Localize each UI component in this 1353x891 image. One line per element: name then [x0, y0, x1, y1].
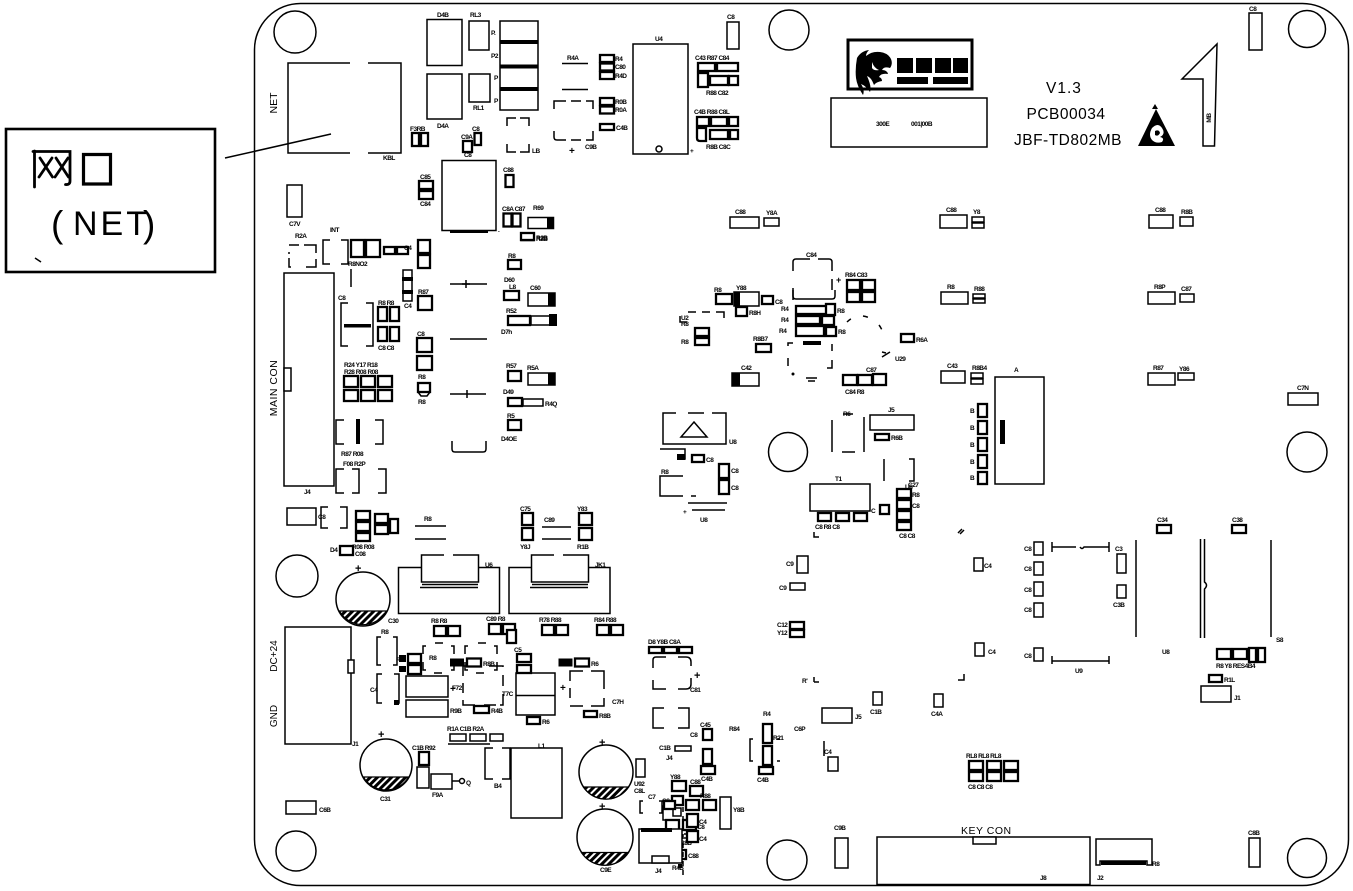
diode D49 row — [503, 389, 557, 408]
svg-text:P2: P2 — [491, 53, 499, 60]
capacitor C92 — [634, 759, 645, 788]
svg-text:C8: C8 — [706, 457, 714, 464]
svg-text:V1.3: V1.3 — [1046, 80, 1082, 97]
svg-text:R8NO2: R8NO2 — [348, 261, 368, 268]
svg-text:C8: C8 — [775, 299, 783, 306]
diode D4A — [427, 74, 462, 130]
svg-text:C9B: C9B — [834, 825, 846, 832]
capacitor C6B — [286, 801, 331, 814]
svg-text:RL1: RL1 — [473, 105, 485, 112]
svg-text:C60: C60 — [530, 285, 541, 292]
svg-text:+: + — [694, 670, 700, 682]
resistor R4 column — [750, 711, 784, 784]
svg-text:R24 Y17 R18: R24 Y17 R18 — [344, 362, 378, 369]
IC U9 outline — [1052, 542, 1109, 675]
opto IC2 dashed — [465, 643, 497, 673]
svg-text:R9B: R9B — [450, 708, 462, 715]
svg-text:C8 C8 C8: C8 C8 C8 — [968, 784, 993, 791]
MAIN CON connector J4 — [268, 273, 334, 496]
svg-text:R2B: R2B — [536, 236, 548, 243]
svg-text:C84: C84 — [420, 201, 431, 208]
svg-text:C88: C88 — [688, 853, 699, 860]
svg-text:P.: P. — [491, 30, 496, 37]
svg-text:R52: R52 — [506, 308, 517, 315]
capacitor C8x pair — [417, 331, 432, 381]
svg-text:C12: C12 — [777, 622, 788, 629]
svg-text:C8: C8 — [464, 152, 472, 159]
mounting hole top-center — [769, 10, 809, 50]
capacitor stack C75 — [520, 506, 533, 551]
svg-text:R8: R8 — [681, 339, 689, 346]
svg-text:R6: R6 — [591, 661, 599, 668]
mounting hole center — [769, 433, 808, 472]
resistor pair row1 col2 — [1149, 207, 1193, 228]
callout box 网口(NET) — [6, 129, 215, 272]
transistor T1 — [810, 476, 870, 531]
connector J6 — [639, 794, 707, 878]
dense cluster bottom-left-center — [662, 774, 745, 872]
svg-text:C8L: C8L — [634, 788, 645, 795]
capacitor C8R — [1248, 830, 1260, 867]
svg-text:C8: C8 — [318, 514, 326, 521]
diode D4B — [427, 12, 462, 66]
svg-text:R8: R8 — [381, 629, 389, 636]
svg-text:L1: L1 — [538, 743, 545, 750]
svg-text:Y8: Y8 — [973, 209, 981, 216]
wire pair — [884, 459, 914, 491]
crystal Y1 cluster — [348, 240, 408, 268]
jumper wire 3 — [450, 390, 486, 398]
crystal X1 — [832, 411, 864, 452]
capacitor C8B — [287, 508, 326, 525]
svg-text:R1L: R1L — [1224, 677, 1235, 684]
capacitor C86 top right — [1249, 6, 1262, 50]
svg-text:R6: R6 — [542, 719, 550, 726]
corner bracket marks — [814, 532, 819, 537]
svg-text:R8: R8 — [418, 374, 426, 381]
resistor R58 — [501, 413, 521, 443]
bracket with pad — [660, 449, 714, 464]
svg-text:DC+24: DC+24 — [269, 640, 280, 672]
wire stub — [350, 269, 352, 287]
svg-text:R8: R8 — [912, 492, 920, 499]
svg-text:Q: Q — [466, 780, 471, 787]
svg-text:C7V: C7V — [289, 221, 301, 228]
resistor pair row1 col1 — [940, 207, 984, 228]
svg-text:LB: LB — [532, 148, 540, 155]
electrolytic capacitor C31 — [360, 729, 412, 803]
capacitor pair C12 — [777, 622, 804, 637]
resistor R86 cluster — [714, 285, 783, 306]
svg-text:R8: R8 — [838, 329, 846, 336]
svg-text:C7: C7 — [648, 794, 656, 801]
svg-text:C9E: C9E — [600, 867, 612, 874]
svg-text:D4: D4 — [330, 547, 338, 554]
capacitor C8H — [727, 14, 739, 49]
capacitor pair C88/Y8 top-center — [730, 209, 779, 228]
resistor network 2-stack — [600, 98, 627, 114]
inductor L1 — [511, 743, 562, 818]
connector J1 — [1201, 686, 1241, 702]
svg-text:R8: R8 — [429, 655, 437, 662]
svg-text:R8: R8 — [661, 469, 669, 476]
IC Y2 dashed square — [793, 252, 835, 300]
resistor bars under Y2 — [779, 304, 846, 336]
svg-text:R4Q: R4Q — [545, 401, 557, 408]
connector J2 — [1096, 839, 1160, 882]
mounting hole top-right — [1289, 11, 1326, 48]
relay JK1 — [509, 552, 610, 614]
svg-text:C4: C4 — [699, 819, 707, 826]
resistor R4B — [474, 706, 503, 715]
svg-text:U92: U92 — [634, 781, 645, 788]
resistor R4A jumper lines — [562, 55, 588, 90]
svg-text:R8 R8: R8 R8 — [431, 618, 448, 625]
inductor lines — [683, 503, 727, 524]
svg-text:Y8A: Y8A — [766, 210, 778, 217]
bracket pair 3 — [321, 507, 347, 528]
svg-text:C84: C84 — [806, 252, 817, 259]
svg-text:C8: C8 — [1024, 546, 1032, 553]
mounting hole mid-left — [276, 555, 318, 597]
svg-text:D4OE: D4OE — [501, 436, 518, 443]
svg-text:R57: R57 — [506, 363, 517, 370]
svg-text:R8: R8 — [837, 308, 845, 315]
connector J5 — [870, 407, 914, 442]
svg-text:J1: J1 — [1234, 695, 1241, 702]
svg-text:R1A C1B R2A: R1A C1B R2A — [447, 726, 485, 733]
svg-text:J4: J4 — [666, 755, 673, 762]
resistor cluster RES4B4 — [1216, 648, 1265, 670]
svg-text:R8: R8 — [418, 399, 426, 406]
svg-text:C88: C88 — [946, 207, 957, 214]
bracket pair J3 — [323, 227, 348, 264]
svg-text:(: ( — [51, 204, 64, 245]
jumper wire 4 — [452, 441, 486, 452]
svg-text:R8: R8 — [424, 516, 432, 523]
svg-text:C80: C80 — [615, 64, 626, 71]
svg-text:R69: R69 — [533, 205, 544, 212]
capacitor C4B — [600, 124, 628, 132]
resistor R69 — [528, 205, 554, 229]
svg-text:C8: C8 — [1024, 566, 1032, 573]
svg-text:C08: C08 — [355, 551, 366, 558]
relay cluster RL — [966, 753, 1018, 791]
svg-text:C43: C43 — [947, 363, 958, 370]
svg-text:C8: C8 — [912, 503, 920, 510]
svg-text:Y8J: Y8J — [520, 544, 531, 551]
logo box — [848, 40, 972, 95]
svg-text:R4: R4 — [779, 328, 787, 335]
capacitor C9A pair — [461, 126, 481, 152]
svg-text:C4B R88 C8L: C4B R88 C8L — [694, 109, 730, 116]
resistor network 3-stack — [600, 55, 627, 80]
connector J7 — [822, 708, 862, 723]
svg-text:J1: J1 — [352, 741, 359, 748]
svg-text:R8B4: R8B4 — [972, 365, 988, 372]
svg-text:C4B: C4B — [701, 776, 713, 783]
svg-text:J4: J4 — [655, 868, 662, 875]
resistor pair row3 col1 — [941, 363, 988, 384]
resistor pair mid ch1 — [450, 659, 495, 669]
svg-text:C43 R87 C84: C43 R87 C84 — [695, 55, 730, 62]
KEY CON connector — [877, 825, 1090, 885]
bracket small — [653, 708, 698, 739]
svg-text:D4A: D4A — [437, 123, 449, 130]
small stack — [396, 654, 421, 674]
DC+24 power connector — [269, 627, 359, 748]
label plate — [831, 98, 987, 147]
svg-text:R2A: R2A — [295, 233, 307, 240]
diode row D8 — [648, 639, 692, 653]
mosfet Q3 — [560, 671, 624, 706]
dashed square D2 — [788, 341, 832, 368]
capacitor column C4x — [404, 240, 430, 268]
capacitor grid 2x2 — [378, 300, 399, 352]
bracket component with bar — [338, 295, 373, 346]
svg-text:C84 R8: C84 R8 — [845, 389, 865, 396]
svg-text:R1B: R1B — [577, 544, 589, 551]
svg-text:C30: C30 — [388, 618, 399, 625]
svg-text:R8B: R8B — [483, 661, 495, 668]
svg-text:R87: R87 — [1153, 365, 1164, 372]
svg-text:C81: C81 — [690, 687, 701, 694]
svg-text:R0B: R0B — [615, 99, 627, 106]
svg-text:C8: C8 — [727, 14, 735, 21]
svg-text:U4: U4 — [655, 36, 663, 43]
svg-text:D8 Y8B C8A: D8 Y8B C8A — [648, 639, 681, 646]
relay RL3 — [469, 12, 489, 50]
ESD warning triangle — [1138, 104, 1175, 146]
bracket frame with plus — [653, 657, 701, 694]
capacitor C7V — [287, 185, 302, 228]
svg-text:MAIN CON: MAIN CON — [268, 360, 280, 417]
resistor pair row2 col1 — [941, 284, 985, 304]
svg-text:R4: R4 — [781, 306, 789, 313]
jumper U29 — [882, 352, 906, 363]
svg-text:R4: R4 — [781, 317, 789, 324]
resistor R88b — [508, 253, 521, 269]
capacitor stack C76 — [577, 506, 592, 551]
svg-text:NET: NET — [268, 92, 280, 114]
capacitor C9x — [786, 556, 808, 573]
power section: top pad pairs — [431, 616, 623, 643]
svg-text:F08 R2P: F08 R2P — [343, 461, 366, 468]
svg-text:C4: C4 — [824, 749, 832, 756]
svg-text:C3: C3 — [1115, 546, 1123, 553]
mounting hole mid-right — [1287, 432, 1327, 472]
capacitor row C84 — [843, 367, 886, 396]
svg-text:C38: C38 — [1232, 517, 1243, 524]
capacitor C4B2 — [824, 741, 838, 771]
resistor cluster 3x3 — [344, 362, 392, 401]
bracket pair 2 — [336, 469, 386, 493]
diode bridge stack P1 — [491, 21, 538, 110]
svg-text:R0A: R0A — [615, 107, 627, 114]
capacitor C86 — [419, 174, 433, 208]
capacitor C7N right edge — [1288, 385, 1318, 405]
svg-text:C4B: C4B — [616, 125, 628, 132]
dashed arc hints — [847, 316, 883, 333]
svg-text:C8 C8: C8 C8 — [899, 533, 916, 540]
svg-text:J8: J8 — [1040, 875, 1047, 882]
svg-text:C87: C87 — [1181, 286, 1192, 293]
svg-text:R5A: R5A — [527, 365, 539, 372]
svg-text:C1B: C1B — [870, 709, 882, 716]
svg-text:C6P: C6P — [794, 726, 806, 733]
resistor R87 — [418, 289, 432, 310]
svg-text:L8: L8 — [509, 284, 516, 291]
svg-text:C4: C4 — [404, 245, 412, 252]
svg-text:U29: U29 — [895, 356, 906, 363]
connector S1 — [1201, 539, 1284, 644]
svg-text:GND: GND — [269, 705, 280, 727]
svg-text:C4: C4 — [699, 836, 707, 843]
fuse F3RB — [410, 126, 428, 146]
capacitor stack right — [871, 482, 920, 540]
svg-text:S8: S8 — [1276, 637, 1284, 644]
mounting hole top-left — [274, 11, 316, 53]
svg-text:C8: C8 — [338, 295, 346, 302]
electrolytic capacitor C9E — [577, 801, 633, 874]
svg-text:C8: C8 — [731, 485, 739, 492]
electrolytic capacitor C8L — [579, 737, 645, 799]
capacitor C1B — [870, 692, 882, 716]
svg-text:R8: R8 — [1152, 861, 1160, 868]
capacitor C88 — [503, 167, 514, 187]
wire vertical — [1135, 540, 1137, 637]
svg-text:R6A: R6A — [916, 337, 928, 344]
resistor R88 small — [418, 383, 430, 406]
tick mark — [35, 258, 41, 262]
jumper outline J9 (dashed corners) — [507, 118, 540, 155]
resistor R9x — [779, 583, 805, 592]
electrolytic capacitor C30 — [336, 563, 399, 626]
svg-text:MB: MB — [1206, 113, 1213, 123]
svg-text:INT: INT — [330, 227, 340, 234]
svg-text:D4B: D4B — [437, 12, 449, 19]
resistor R6A — [901, 334, 928, 344]
svg-text:J2: J2 — [1097, 875, 1104, 882]
svg-text:Y12: Y12 — [777, 630, 788, 637]
mounting hole bottom-center — [767, 840, 807, 880]
resistor R2A with dashed border — [289, 233, 316, 267]
svg-text:C8: C8 — [1024, 653, 1032, 660]
connector A — [970, 367, 1044, 484]
svg-text:C8B: C8B — [1248, 830, 1260, 837]
capacitor stack C21 — [719, 464, 739, 494]
capacitor column right — [1024, 542, 1043, 661]
svg-text:J4: J4 — [304, 489, 311, 496]
svg-text:R8B: R8B — [1181, 209, 1193, 216]
svg-text:R4: R4 — [615, 56, 623, 63]
svg-text:C4: C4 — [370, 687, 378, 694]
svg-text:U8: U8 — [729, 439, 737, 446]
svg-text:RL3: RL3 — [470, 12, 482, 19]
svg-text:R8P: R8P — [1154, 284, 1166, 291]
svg-text:Y88: Y88 — [736, 285, 747, 292]
capacitor C4Y — [402, 270, 413, 310]
svg-text:C9: C9 — [786, 561, 794, 568]
svg-text:T7C: T7C — [502, 691, 514, 698]
svg-text:D49: D49 — [503, 389, 514, 396]
svg-text:C89 R8: C89 R8 — [486, 616, 506, 623]
capacitor cluster right of Y2 — [836, 272, 875, 302]
svg-text:C1B: C1B — [659, 745, 671, 752]
svg-text:J5: J5 — [855, 714, 862, 721]
svg-text:C42: C42 — [741, 365, 752, 372]
svg-text:+: + — [569, 146, 575, 157]
svg-text:R84 C83: R84 C83 — [845, 272, 868, 279]
svg-text:C8: C8 — [731, 468, 739, 475]
svg-text:R88: R88 — [974, 286, 985, 293]
resistor pair row3 col2 — [1148, 365, 1194, 385]
capacitor C42 — [732, 365, 759, 386]
svg-text:): ) — [143, 204, 155, 245]
callout text 口 — [84, 155, 111, 185]
svg-text:C4B: C4B — [757, 777, 769, 784]
capacitor C38 top — [1232, 517, 1246, 533]
transistor cluster F9A — [412, 745, 471, 799]
svg-text:001|00B: 001|00B — [911, 121, 933, 128]
jumper wire 2 — [450, 338, 487, 340]
resistor lines R8 — [415, 516, 446, 539]
resistor R2B — [521, 234, 548, 242]
svg-text:C8 R8 C8: C8 R8 C8 — [815, 524, 840, 531]
resistor R8B2 — [584, 711, 611, 720]
svg-text:C8 C8: C8 C8 — [378, 345, 395, 352]
resistor row R52 — [501, 308, 557, 336]
svg-text:+: + — [560, 683, 566, 694]
svg-text:Y8B: Y8B — [733, 807, 745, 814]
svg-text:R8B7: R8B7 — [753, 336, 769, 343]
svg-text:JBF-TD802MB: JBF-TD802MB — [1014, 132, 1122, 149]
svg-text:R88 C82: R88 C82 — [706, 90, 729, 97]
resistor pair mid ch2 — [559, 659, 600, 669]
svg-text:C4: C4 — [404, 303, 412, 310]
svg-text:C8: C8 — [690, 732, 698, 739]
test point TP1 — [792, 373, 818, 382]
resistor C89 lines — [542, 517, 571, 539]
svg-text:R8: R8 — [681, 321, 689, 328]
relay RL1 — [469, 74, 490, 112]
svg-text:R4A: R4A — [567, 55, 579, 62]
diode D48 — [330, 546, 353, 555]
opto IC1 dashed — [423, 643, 454, 673]
svg-text:U8: U8 — [700, 517, 708, 524]
svg-text:C8: C8 — [1024, 587, 1032, 594]
bracket with I-bar — [336, 419, 383, 444]
svg-text:C8: C8 — [1249, 6, 1257, 13]
svg-text:R8 Y8 RES4B4: R8 Y8 RES4B4 — [1216, 663, 1256, 670]
mosfet Q1 — [450, 666, 514, 705]
svg-text:R8B C8C: R8B C8C — [706, 144, 731, 151]
svg-text:Y86: Y86 — [1179, 366, 1190, 373]
svg-text:C31: C31 — [380, 796, 391, 803]
resistor R1L — [1209, 675, 1235, 684]
svg-text:C7N: C7N — [1297, 385, 1309, 392]
svg-text:JK1: JK1 — [595, 562, 606, 569]
resistor cluster RN1 — [695, 55, 738, 97]
jumper wire 1 — [450, 280, 487, 288]
resistor row R57 — [506, 363, 555, 385]
resistor row RLA — [447, 726, 503, 744]
resistor R8B7 — [753, 336, 771, 352]
svg-text:R4: R4 — [763, 711, 771, 718]
svg-text:C9: C9 — [779, 585, 787, 592]
svg-text:300E: 300E — [876, 121, 890, 128]
svg-text:NET: NET — [73, 205, 150, 243]
